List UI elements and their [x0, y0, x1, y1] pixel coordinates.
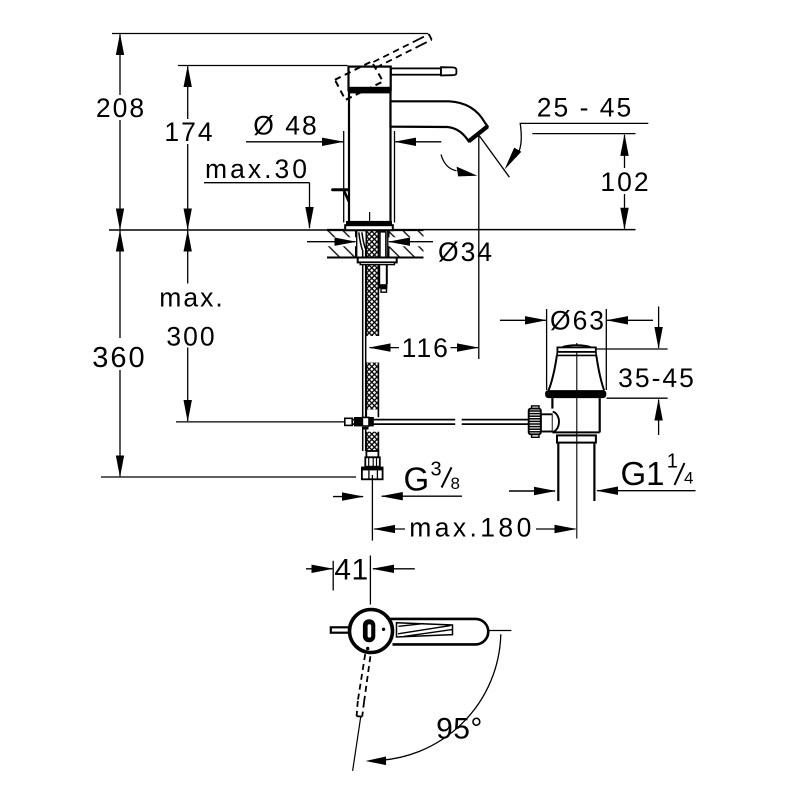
svg-text:174: 174	[164, 117, 214, 147]
svg-text:25 - 45: 25 - 45	[537, 93, 634, 123]
svg-text:max.180: max.180	[409, 513, 534, 543]
svg-text:max.: max.	[159, 283, 224, 313]
svg-text:4: 4	[684, 469, 693, 488]
svg-text:Ø 48: Ø 48	[253, 111, 318, 141]
svg-text:8: 8	[451, 474, 460, 493]
svg-text:3: 3	[431, 459, 442, 481]
svg-text:41: 41	[334, 554, 368, 587]
svg-text:1: 1	[667, 451, 678, 473]
svg-text:G: G	[404, 461, 430, 498]
svg-text:Ø63: Ø63	[550, 306, 606, 336]
svg-text:208: 208	[96, 93, 146, 123]
svg-text:300: 300	[166, 321, 216, 351]
svg-text:360: 360	[92, 342, 146, 374]
svg-text:35-45: 35-45	[618, 363, 696, 393]
svg-text:95°: 95°	[436, 713, 483, 746]
svg-text:102: 102	[600, 167, 650, 197]
svg-text:116: 116	[402, 333, 450, 363]
svg-text:Ø34: Ø34	[438, 237, 494, 267]
svg-text:max.30: max.30	[205, 154, 310, 184]
svg-text:G1: G1	[621, 455, 665, 492]
